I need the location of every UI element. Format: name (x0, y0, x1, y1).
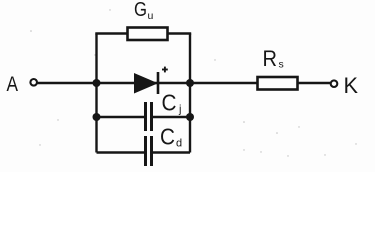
wire Cd branch left (97, 151, 145, 153)
svg-text:G: G (134, 0, 147, 21)
svg-text:A: A (7, 73, 19, 96)
terminal A (30, 79, 37, 86)
label R_s (263, 46, 284, 71)
svg-text:C: C (162, 90, 177, 116)
resistor R_s (258, 77, 298, 90)
wire Cj branch left (97, 116, 145, 118)
label A (7, 73, 19, 96)
svg-text:s: s (279, 59, 284, 71)
wire Cj branch right (153, 116, 190, 118)
terminal K (331, 80, 338, 87)
node dot left main (93, 79, 101, 87)
wire main horizontal A to K (37, 82, 331, 84)
plus polarity mark (162, 67, 168, 73)
node dot right Cj (186, 113, 194, 121)
node dot left Cj (93, 113, 101, 121)
label K (344, 73, 359, 98)
label G_u (134, 0, 154, 22)
resistor G_u (128, 28, 168, 41)
svg-text:d: d (176, 138, 182, 150)
svg-text:K: K (344, 73, 359, 98)
capacitor C_d (146, 136, 152, 166)
diode D1 (134, 72, 158, 94)
svg-text:u: u (148, 10, 154, 22)
wire top branch (95, 32, 191, 34)
label C_j (162, 90, 182, 116)
svg-text:C: C (160, 124, 175, 150)
node dot right main (186, 79, 194, 87)
wire right vertical bus (189, 34, 191, 153)
svg-text:j: j (178, 104, 181, 116)
wire Cd branch right (153, 151, 190, 153)
wire left vertical bus (95, 34, 97, 153)
capacitor C_j (146, 102, 152, 131)
svg-text:R: R (263, 46, 278, 71)
label C_d (160, 124, 182, 150)
scan speckles (noise) (30, 9, 356, 156)
